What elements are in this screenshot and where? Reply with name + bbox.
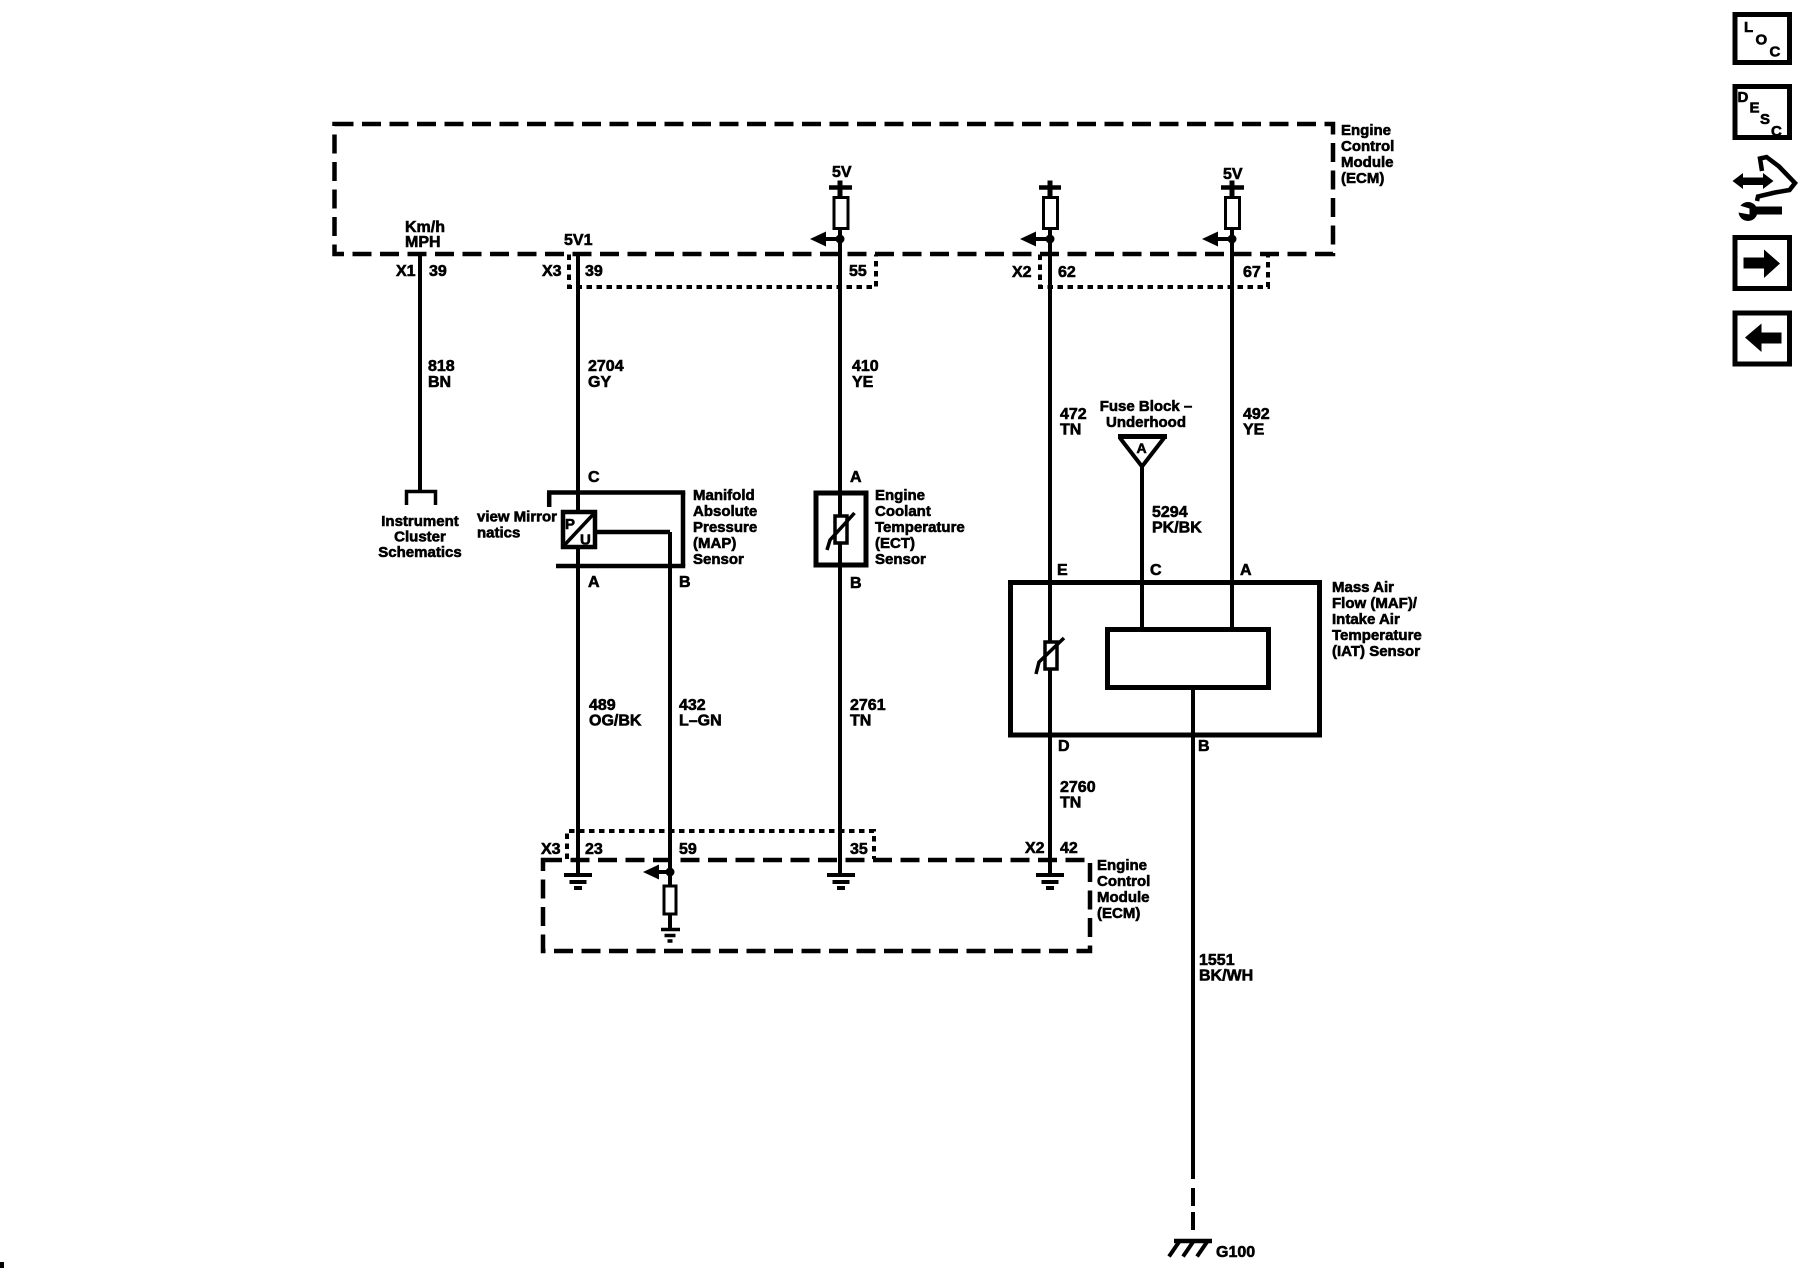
svg-text:natics: natics: [477, 525, 520, 542]
label Instrument Cluster Schematics: [378, 513, 461, 561]
svg-text:D: D: [1738, 89, 1749, 106]
svg-text:Control: Control: [1341, 138, 1394, 155]
clipped label view Mirror / natics: [477, 509, 557, 542]
arrow to ECM logic (pin 67): [1202, 232, 1232, 247]
svg-text:X3: X3: [542, 263, 562, 280]
label Manifold Absolute Pressure (MAP) Sensor: [693, 487, 757, 568]
svg-text:Temperature: Temperature: [875, 519, 965, 536]
pin 55: [849, 263, 867, 280]
label 472 TN: [1060, 406, 1087, 439]
svg-text:L: L: [1744, 19, 1753, 36]
label 492 YE: [1243, 406, 1270, 439]
label 5294 PK/BK: [1152, 504, 1202, 537]
5V supply tap (pin 55): [829, 164, 852, 197]
svg-text:Instrument: Instrument: [381, 513, 459, 530]
off-page connector to instrument cluster: [407, 492, 436, 506]
svg-text:E: E: [1750, 100, 1760, 117]
ECM module box (top, dashed): [335, 124, 1334, 254]
pin label X1: [396, 263, 416, 280]
pin label X2: [1012, 264, 1032, 281]
wire 492 YE (pin 67 to MAF/IAT pin A): [1230, 228, 1234, 640]
svg-text:2760: 2760: [1060, 779, 1096, 796]
svg-text:C: C: [1770, 44, 1781, 61]
svg-text:432: 432: [679, 697, 706, 714]
svg-text:472: 472: [1060, 406, 1087, 423]
pin A (ECT): [850, 469, 862, 486]
svg-text:GY: GY: [588, 374, 611, 391]
nav icon quick links (double arrow, loop, wrench): [1733, 157, 1796, 221]
svg-text:42: 42: [1060, 840, 1078, 857]
svg-text:62: 62: [1058, 264, 1076, 281]
pin A (MAF/IAT): [1240, 562, 1252, 579]
label Engine Control Module (ECM) top: [1341, 122, 1394, 187]
wire 432 L-GN (MAP B to X3-59): [668, 532, 672, 886]
label 432 L-GN: [679, 697, 722, 730]
pin 39 (X1): [429, 263, 447, 280]
svg-text:A: A: [588, 574, 600, 591]
pin A (MAP): [588, 574, 600, 591]
svg-text:Sensor: Sensor: [875, 551, 926, 568]
svg-text:B: B: [1198, 738, 1210, 755]
page corner speck: [0, 1262, 4, 1268]
label Engine Coolant Temperature (ECT) Sensor: [875, 487, 965, 568]
svg-text:818: 818: [428, 358, 455, 375]
svg-text:39: 39: [585, 263, 603, 280]
svg-text:X3: X3: [541, 841, 561, 858]
label Km/h MPH: [405, 219, 445, 251]
svg-text:Control: Control: [1097, 873, 1150, 890]
svg-text:B: B: [850, 575, 862, 592]
MAF/IAT sensor box outline: [1011, 583, 1320, 736]
svg-text:(ECM): (ECM): [1097, 905, 1140, 922]
wire 472 TN (pin 62 to MAF/IAT pin E): [1048, 228, 1052, 876]
ground (ECM pin 35): [827, 875, 855, 888]
ground (ECM pin 42): [1036, 875, 1064, 888]
svg-text:2704: 2704: [588, 358, 624, 375]
svg-text:PK/BK: PK/BK: [1152, 520, 1202, 537]
svg-text:23: 23: [585, 841, 603, 858]
wire 1551 BK/WH (MAF B to G100): [1191, 690, 1195, 1230]
svg-text:YE: YE: [1243, 422, 1265, 439]
wire MAP internal link to pin B: [596, 530, 670, 535]
pin B (MAF/IAT): [1198, 738, 1210, 755]
svg-text:Engine: Engine: [1097, 857, 1147, 874]
svg-text:X2: X2: [1012, 264, 1032, 281]
svg-text:5V: 5V: [1223, 166, 1243, 183]
pressure transducer symbol P/U (MAP): [563, 512, 595, 549]
nav button back (left arrow): [1735, 313, 1790, 364]
svg-text:Schematics: Schematics: [378, 544, 461, 561]
junction dot (pin 59): [666, 868, 675, 877]
label G100: [1216, 1244, 1255, 1261]
pin 67: [1243, 264, 1261, 281]
arrow to ECM logic (pin 59): [643, 865, 670, 880]
svg-text:5V1: 5V1: [564, 232, 593, 249]
svg-text:Pressure: Pressure: [693, 519, 757, 536]
svg-text:59: 59: [679, 841, 697, 858]
svg-text:E: E: [1057, 562, 1068, 579]
pin label X2 (bottom): [1025, 840, 1045, 857]
svg-text:TN: TN: [1060, 422, 1081, 439]
svg-text:Mass Air: Mass Air: [1332, 579, 1394, 596]
svg-text:Manifold: Manifold: [693, 487, 755, 504]
svg-text:C: C: [1771, 123, 1782, 140]
wire 5294 PK/BK (fuse block to MAF pin C): [1140, 466, 1144, 640]
wire 818 BN (X1-39 to instrument cluster): [418, 254, 422, 490]
svg-text:2761: 2761: [850, 697, 886, 714]
svg-text:(ECM): (ECM): [1341, 170, 1384, 187]
svg-text:55: 55: [849, 263, 867, 280]
pin 59: [679, 841, 697, 858]
pin C (MAP): [588, 469, 600, 486]
pin 23: [585, 841, 603, 858]
svg-text:A: A: [1240, 562, 1252, 579]
svg-text:O: O: [1756, 32, 1768, 49]
label Mass Air Flow (MAF)/ Intake Air Temperature (IAT) Sensor: [1332, 579, 1422, 660]
wire 489 OG/BK (MAP A to X3-23): [576, 549, 580, 876]
pin label X3 (bottom): [541, 841, 561, 858]
pin B (ECT): [850, 575, 862, 592]
svg-text:X1: X1: [396, 263, 416, 280]
label 410 YE: [852, 358, 879, 391]
svg-text:5294: 5294: [1152, 504, 1188, 521]
svg-text:TN: TN: [1060, 795, 1081, 812]
svg-text:Fuse Block –: Fuse Block –: [1100, 398, 1193, 415]
ECM module box (bottom, dashed): [543, 860, 1090, 951]
svg-text:(MAP): (MAP): [693, 535, 736, 552]
ground G100 (chassis): [1169, 1241, 1212, 1257]
thermistor symbol (IAT): [1036, 638, 1064, 674]
svg-text:view Mirror: view Mirror: [477, 509, 557, 526]
wire 410 YE (pin 55 to ECT pin A): [838, 228, 842, 876]
svg-text:489: 489: [589, 697, 616, 714]
nav button DESC: [1735, 87, 1790, 141]
thermistor symbol (ECT): [827, 513, 855, 550]
label Engine Control Module (ECM) bottom: [1097, 857, 1150, 922]
wire 2704 GY (X3-39 to MAP pin C): [576, 254, 580, 510]
svg-text:Absolute: Absolute: [693, 503, 757, 520]
resistor ECM pull-down (pin 59): [664, 886, 676, 914]
svg-text:B: B: [679, 574, 691, 591]
svg-text:BN: BN: [428, 374, 451, 391]
svg-text:Intake Air: Intake Air: [1332, 611, 1400, 628]
svg-text:Engine: Engine: [1341, 122, 1391, 139]
pin 39 (X3): [585, 263, 603, 280]
label 489 OG/BK: [589, 697, 642, 730]
svg-text:G100: G100: [1216, 1244, 1255, 1261]
5V supply tap (pin 62): [1039, 181, 1061, 198]
pin E (MAF/IAT): [1057, 562, 1068, 579]
svg-text:Module: Module: [1097, 889, 1150, 906]
svg-text:410: 410: [852, 358, 879, 375]
svg-text:P: P: [565, 516, 575, 533]
label Fuse Block - Underhood: [1100, 398, 1193, 431]
label 2761 TN: [850, 697, 886, 730]
svg-text:X2: X2: [1025, 840, 1045, 857]
node 5V1: [564, 232, 593, 249]
nav button LOC: [1735, 15, 1790, 63]
connector dotted box X3-39..55: [569, 255, 876, 288]
svg-text:Coolant: Coolant: [875, 503, 931, 520]
arrow to ECM logic (pin 55): [810, 232, 840, 247]
ground (ECM pin 59): [661, 930, 680, 942]
pin C (MAF/IAT): [1150, 562, 1162, 579]
svg-text:YE: YE: [852, 374, 874, 391]
MAF internal module rectangle: [1108, 630, 1269, 688]
svg-text:BK/WH: BK/WH: [1199, 968, 1253, 985]
svg-text:Module: Module: [1341, 154, 1394, 171]
svg-text:TN: TN: [850, 713, 871, 730]
MAP sensor box outline: [547, 493, 685, 567]
resistor ECM pull-up (pin 55): [834, 198, 848, 229]
svg-text:U: U: [580, 532, 591, 549]
resistor ECM pull-up (pin 67): [1226, 198, 1240, 229]
pin D (MAF/IAT): [1058, 738, 1070, 755]
pin B (MAP): [679, 574, 691, 591]
ECT sensor box outline: [816, 493, 866, 565]
junction dot (pin 62): [1046, 235, 1055, 244]
label 818 BN: [428, 358, 455, 391]
svg-text:492: 492: [1243, 406, 1270, 423]
fuse block triangle connector A: [1118, 437, 1167, 467]
label 1551 BK/WH: [1199, 952, 1253, 985]
wire resistor to ground (pin 59): [668, 914, 672, 929]
svg-text:C: C: [1150, 562, 1162, 579]
svg-text:39: 39: [429, 263, 447, 280]
svg-text:35: 35: [850, 841, 868, 858]
arrow to ECM logic (pin 62): [1020, 232, 1050, 247]
connector dotted box X3-23..35 (bottom): [567, 831, 874, 859]
5V supply tap (pin 67): [1221, 166, 1244, 197]
svg-text:1551: 1551: [1199, 952, 1235, 969]
label 2760 TN: [1060, 779, 1096, 812]
svg-text:OG/BK: OG/BK: [589, 713, 642, 730]
svg-text:D: D: [1058, 738, 1070, 755]
svg-text:Sensor: Sensor: [693, 551, 744, 568]
svg-text:A: A: [850, 469, 862, 486]
resistor ECM pull-up (pin 62): [1044, 198, 1058, 229]
svg-text:A: A: [1137, 440, 1147, 456]
pin label X3: [542, 263, 562, 280]
pin 35: [850, 841, 868, 858]
pin 42: [1060, 840, 1078, 857]
svg-text:Engine: Engine: [875, 487, 925, 504]
ground (ECM pin 23): [564, 875, 592, 888]
junction dot (pin 67): [1228, 235, 1237, 244]
label 2704 GY: [588, 358, 624, 391]
pin 62: [1058, 264, 1076, 281]
svg-text:(ECT): (ECT): [875, 535, 915, 552]
svg-text:Temperature: Temperature: [1332, 627, 1422, 644]
nav button next (right arrow): [1735, 238, 1790, 289]
svg-text:S: S: [1760, 111, 1770, 128]
svg-text:Underhood: Underhood: [1106, 414, 1186, 431]
svg-text:5V: 5V: [832, 164, 852, 181]
svg-text:(IAT) Sensor: (IAT) Sensor: [1332, 643, 1420, 660]
svg-text:Flow (MAF)/: Flow (MAF)/: [1332, 595, 1418, 612]
svg-text:Cluster: Cluster: [394, 529, 446, 546]
svg-text:MPH: MPH: [405, 234, 441, 251]
connector dotted box X2-62..67: [1040, 255, 1268, 288]
svg-text:C: C: [588, 469, 600, 486]
junction dot (pin 55): [836, 235, 845, 244]
svg-text:L–GN: L–GN: [679, 713, 722, 730]
svg-text:67: 67: [1243, 264, 1261, 281]
